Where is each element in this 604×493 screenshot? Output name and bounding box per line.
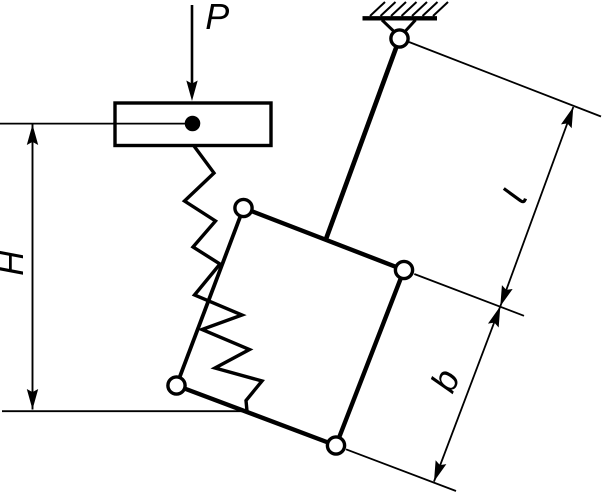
support bracket right leg	[405, 20, 416, 32]
pin B (top-right of plate)	[395, 261, 412, 278]
svg-text:H: H	[0, 250, 31, 276]
spring between slider and plate bottom edge	[185, 146, 263, 411]
ceiling support bar	[363, 16, 438, 20]
reference line inside slider	[113, 123, 193, 125]
l bottom arrowhead	[500, 285, 512, 306]
dimension b line	[434, 306, 500, 481]
svg-text:P: P	[205, 0, 229, 37]
b bottom arrowhead	[434, 460, 446, 481]
plate edge AB (top)	[244, 208, 405, 270]
rod from ceiling pin to plate	[326, 39, 400, 240]
slider block rectangle	[115, 103, 271, 146]
dimension H line	[32, 125, 34, 410]
slider pivot dot	[185, 116, 201, 132]
plate edge DE (bottom)	[177, 386, 337, 446]
label l	[504, 189, 526, 202]
wire: top reference line at slider level	[0, 123, 193, 125]
extension line from ceiling pin for l	[409, 42, 601, 117]
plate edge BE (right)	[336, 270, 404, 446]
dimension l line	[500, 107, 573, 306]
force P arrowhead	[186, 81, 197, 102]
ceiling pin C	[391, 30, 408, 47]
pin A (top-left of plate)	[235, 199, 252, 216]
H bottom arrowhead	[27, 389, 38, 410]
wire: bottom reference line at spring anchor level	[2, 410, 243, 412]
b top arrowhead	[488, 306, 500, 327]
H top arrowhead	[27, 125, 38, 146]
extension line from pin B for l and b	[414, 274, 524, 316]
extension line from pin E for b	[346, 449, 456, 491]
pin D (bottom-left of plate)	[168, 377, 185, 394]
support bracket left leg	[382, 20, 394, 32]
plate edge AD (left)	[177, 208, 244, 386]
force P arrow stem	[191, 5, 194, 86]
pin E (bottom-right of plate)	[327, 437, 344, 454]
ceiling hatch strokes	[370, 2, 448, 16]
l top arrowhead	[561, 107, 573, 128]
